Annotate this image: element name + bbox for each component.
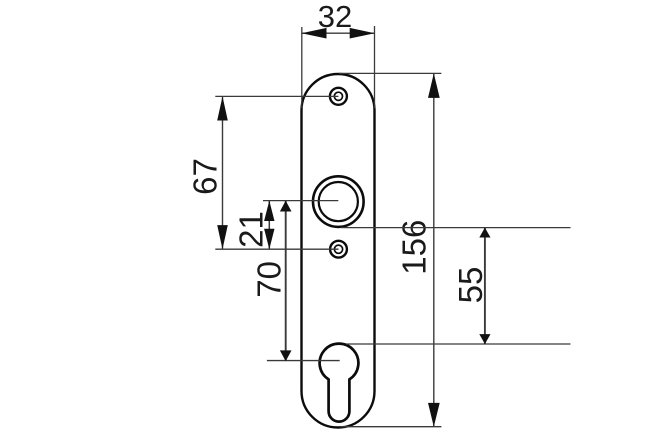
dimension 21 arrow down: [264, 229, 274, 249]
svg-text:67: 67: [187, 158, 224, 195]
lower screw center line / dimension 67 bottom extension: [215, 248, 338, 250]
top screw center line / dimension 67 top extension: [215, 95, 338, 97]
top screw hole: [330, 88, 347, 105]
dimension 156 top extension: [339, 72, 441, 74]
dimension 55 line: [484, 228, 486, 344]
dimension 70 arrow up: [280, 201, 292, 212]
dimension 156 arrow down: [428, 403, 440, 427]
dimension 32 arrow right: [350, 28, 375, 39]
handle center line / dimension 21 extension: [263, 200, 338, 202]
dimension 55 top extension: [341, 227, 571, 229]
dimension 32 arrow left: [302, 28, 327, 39]
svg-text:55: 55: [452, 267, 489, 304]
dimension 70 arrow down: [280, 350, 292, 361]
dimension 55 arrow down: [479, 334, 490, 344]
handle hole: [313, 176, 364, 227]
dimension 55 arrow up: [479, 228, 490, 238]
dimension 21 line: [268, 201, 270, 250]
dimension 55 bottom extension: [346, 343, 571, 345]
dimension 70 line: [285, 201, 287, 361]
dimension 32 line: [302, 32, 375, 34]
dimension 67 arrow up: [217, 96, 228, 120]
dimension 21 arrow up: [264, 201, 274, 221]
dimension 156 bottom extension: [340, 426, 441, 428]
dimension 67 line: [222, 96, 224, 249]
svg-text:70: 70: [251, 261, 288, 298]
lower screw hole: [330, 241, 347, 258]
svg-text:32: 32: [318, 0, 352, 34]
svg-text:21: 21: [233, 211, 270, 248]
dimension 67 arrow down: [217, 225, 228, 249]
dimension 32 extension line left: [301, 27, 303, 108]
dimension 156 arrow up: [428, 73, 440, 98]
dimension 32 extension line right: [374, 26, 376, 108]
euro profile cylinder cutout: [320, 344, 359, 422]
dimension 156 line: [433, 73, 435, 426]
plate outline: [302, 74, 375, 428]
euro cylinder center line / dimension 70 bottom extension: [267, 360, 340, 362]
